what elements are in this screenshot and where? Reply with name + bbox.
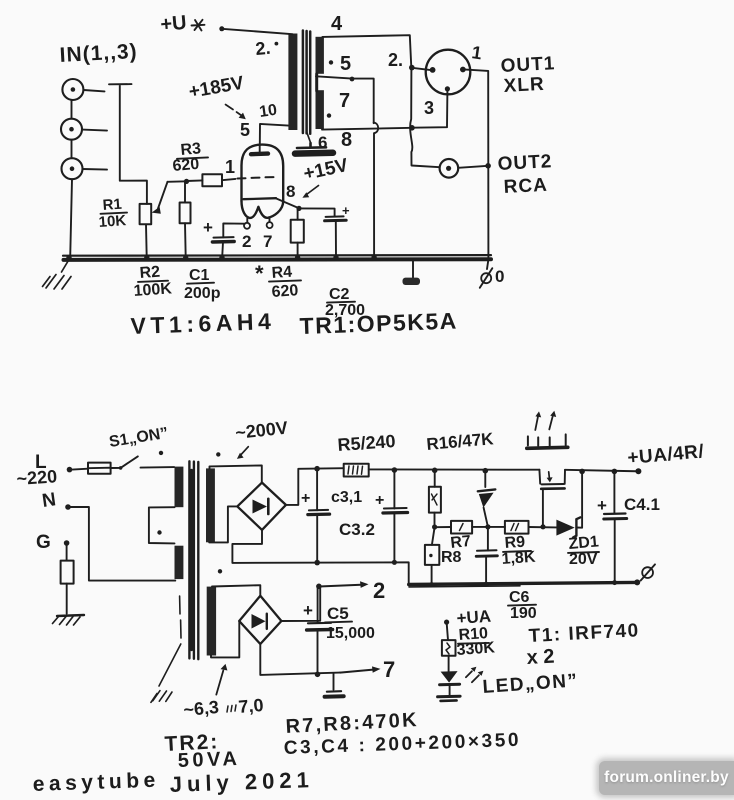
TR2 secondary bottom winding — [207, 587, 216, 656]
zener D2 vertical — [484, 471, 486, 487]
T1 gate arrow — [548, 472, 551, 479]
ground bus — [63, 254, 491, 257]
wire XLR pin2 — [414, 68, 430, 70]
resistor R4 — [297, 209, 299, 220]
TR2 core dashed lead and ground — [180, 596, 181, 638]
capacitor C3.2 — [393, 470, 395, 508]
+UA output rail — [565, 470, 638, 472]
label OUT1 XLR — [500, 53, 556, 97]
bridge rectifier B2 — [239, 596, 281, 644]
resistor R10 — [447, 622, 448, 640]
earth ground G chain — [66, 546, 68, 561]
svg-text:2: 2 — [373, 578, 385, 603]
terminal G — [64, 540, 70, 546]
label TR2: 50VA — [164, 730, 241, 772]
TR2 secondary top winding — [206, 468, 215, 542]
label C2 2700 — [325, 286, 365, 319]
resistor R3 — [187, 179, 203, 182]
label R1 10K — [98, 196, 127, 231]
capacitor C4.1 — [613, 472, 615, 514]
wire bridge1 plus to 200V rail — [286, 468, 540, 505]
svg-text:330K: 330K — [456, 639, 496, 659]
node pin3 junction — [409, 125, 415, 131]
VT1 pins 2 7 — [244, 223, 250, 229]
VT1 cathode — [244, 198, 277, 199]
wire TR1 center tap with hop — [316, 76, 374, 123]
label ~6,3 7,0 with arrow — [183, 695, 265, 720]
svg-text:July 2021: July 2021 — [169, 767, 314, 797]
wire ZD1 to rail — [577, 472, 583, 528]
switch S1 — [119, 466, 123, 470]
TR1 secondary bottom winding — [316, 90, 324, 129]
wire secondary bottom to bridge2 — [212, 585, 260, 596]
label *R4 620 — [255, 261, 299, 301]
labels +UA R10 330K — [456, 607, 496, 659]
resistor R5 — [344, 464, 369, 477]
label C1 200p — [184, 267, 221, 302]
chassis ground tab — [412, 260, 414, 278]
label easytube July 2021 — [32, 767, 314, 797]
resistor R8 — [432, 527, 435, 545]
TR2 core — [189, 461, 198, 659]
node OUT2 rail — [485, 163, 491, 169]
ground input hatched — [43, 260, 72, 290]
terminal N — [65, 504, 71, 510]
transformer TR1 primary winding — [288, 34, 297, 131]
svg-text:T1: IRF740: T1: IRF740 — [528, 620, 640, 647]
nodes gate divider — [432, 524, 546, 529]
svg-text:~6,3: ~6,3 — [183, 697, 220, 720]
node C5 minus — [315, 672, 321, 678]
svg-text:15,000: 15,000 — [326, 625, 375, 642]
resistor R2 — [184, 181, 186, 202]
wire R1 bottom — [145, 224, 148, 257]
wire bridge1 ac2 — [209, 506, 237, 542]
wire XLR pin3 — [412, 92, 447, 128]
XLR labels — [388, 42, 483, 118]
heatsink — [527, 447, 568, 448]
ground LED — [438, 695, 461, 699]
bus junction nodes — [66, 255, 377, 261]
input jack J3 — [62, 158, 108, 179]
capacitor C6 — [487, 527, 489, 551]
label OUT2 RCA — [497, 151, 553, 198]
ground heater — [333, 674, 335, 690]
wire secondary top to bridge1 — [210, 465, 262, 482]
RCA jack OUT2 — [440, 159, 459, 178]
VT1 anode plate — [251, 151, 268, 156]
R1 wiper arrow — [158, 182, 168, 209]
node +UA LED feed — [444, 620, 449, 625]
resistor R7 — [451, 521, 472, 534]
TR1 secondary top winding — [316, 37, 324, 74]
TR2 primary bottom — [175, 546, 184, 579]
svg-text:x 2: x 2 — [526, 646, 555, 669]
node heater plus — [316, 584, 322, 590]
svg-text:50VA: 50VA — [177, 748, 240, 772]
nodes on 200V rail — [314, 466, 488, 474]
node A wiper junction — [168, 180, 187, 183]
arrow to pin 7 — [340, 670, 373, 673]
label phi 0V — [642, 567, 653, 578]
polarity dot jumper — [157, 530, 161, 534]
wire XLR pin1 to output rail — [466, 70, 489, 269]
middle wire — [435, 526, 557, 529]
wire N to primary — [71, 507, 176, 581]
wire bridge1 minus to 0V rail — [232, 530, 408, 585]
B1 diode — [253, 500, 268, 514]
labels ZD1 20V — [568, 533, 600, 568]
input jack J2 — [61, 119, 107, 140]
wire TR1 pin8 out — [322, 128, 412, 130]
bridge rectifier B1 — [237, 483, 286, 530]
watermark forum.onliner.by — [599, 761, 734, 795]
wire bridge2 ac2 — [211, 621, 239, 657]
capacitor C1 — [214, 236, 234, 239]
wire bridge2 minus rail — [260, 644, 340, 675]
TR1 winding joint — [315, 74, 318, 91]
wire T1 gate down — [542, 489, 544, 527]
tube VT1 envelope — [242, 145, 284, 201]
heatsink arrows — [535, 416, 553, 430]
wire anode to pin 5 — [260, 124, 289, 152]
wire node to OUT2 — [410, 68, 439, 167]
XLR connector OUT1 — [426, 50, 471, 95]
zener ZD1 — [556, 520, 574, 536]
node XLR pin2 — [409, 65, 415, 71]
MOSFET T1 — [539, 470, 565, 484]
svg-text:7,0: 7,0 — [238, 695, 265, 717]
label T1: IRF740 x 2 — [526, 620, 640, 669]
labels C6 190 — [509, 589, 537, 622]
ground TR1 — [297, 143, 326, 148]
svg-text:LED„ON”: LED„ON” — [482, 670, 579, 698]
label phi 0 — [481, 273, 491, 283]
input jack J1 — [62, 79, 104, 100]
label R2 100K — [133, 264, 173, 300]
tube pin labels — [225, 102, 295, 251]
capacitor C3.1 — [316, 469, 318, 511]
svg-text:easytube: easytube — [32, 769, 160, 796]
LED light arrows — [466, 671, 479, 682]
terminal L — [67, 467, 73, 473]
svg-text:7: 7 — [383, 657, 395, 682]
TR1 core — [303, 31, 310, 134]
capacitor C2 — [299, 208, 335, 216]
capacitor C5 — [317, 587, 319, 623]
node +15V junction — [296, 206, 301, 211]
wire +UA feed — [219, 26, 224, 31]
svg-text:+: + — [303, 601, 313, 620]
wire bridge2 plus — [281, 586, 320, 621]
0V rail lower — [409, 582, 637, 584]
svg-text:C5: C5 — [327, 604, 349, 623]
transformer TR2 primary top — [175, 467, 184, 508]
resistor R16 — [434, 470, 436, 486]
wire cathode to +15V node — [276, 198, 299, 208]
labels C3,1 C3.2 — [331, 489, 375, 539]
grid dashed line — [238, 177, 274, 178]
fuse F1 — [72, 468, 88, 471]
arrow to pin 2 — [322, 585, 361, 587]
B2 diode — [252, 614, 266, 629]
labels C5 15000 — [326, 604, 375, 642]
LED D3 — [441, 671, 458, 683]
wire input signal to R1 — [109, 84, 147, 204]
wire jack ground chain — [70, 100, 72, 257]
TR2 primary jumper — [149, 507, 175, 543]
potentiometer R1 — [140, 204, 152, 224]
polarity dots TR2 — [159, 451, 222, 574]
label R3 620 — [172, 140, 202, 175]
wire TR1 pin4 to XLR — [322, 35, 411, 67]
resistor R9 — [505, 521, 529, 534]
label VT1:6AH4 TR1:OP5K5A — [130, 307, 458, 339]
